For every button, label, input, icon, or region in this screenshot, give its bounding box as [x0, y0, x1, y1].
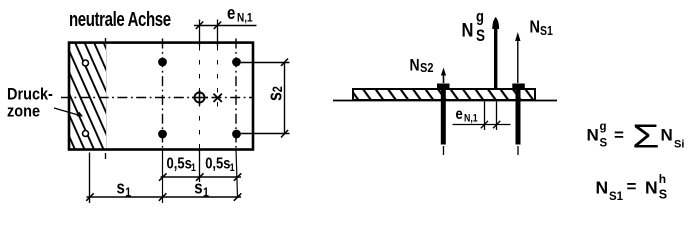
- horizontal centerline (dash-dot): [61, 97, 253, 99]
- svg-text:N: N: [462, 19, 474, 41]
- label s1 (left): [117, 177, 132, 200]
- dimension s1 s1 (bottom): [86, 193, 241, 201]
- svg-text:s: s: [194, 177, 202, 198]
- svg-text:Si: Si: [674, 139, 684, 151]
- svg-text:N: N: [596, 178, 609, 198]
- neutral axis boundary line (right edge of hatched zone): [105, 38, 107, 159]
- formula N_S1 = N_S^h: [596, 172, 668, 203]
- svg-text:neutrale Achse: neutrale Achse: [69, 8, 171, 31]
- left anchor bolt (section): [437, 84, 450, 156]
- plate section hatched: [353, 89, 535, 100]
- svg-text:s: s: [264, 92, 286, 101]
- svg-text:zone: zone: [7, 103, 40, 121]
- bolt dot bottom-right: [232, 130, 241, 139]
- baseplate outline: [69, 43, 253, 150]
- svg-text:Druck-: Druck-: [7, 86, 53, 104]
- svg-text:S1: S1: [540, 25, 553, 38]
- force arrow N_S1 (thin): [515, 32, 520, 83]
- right anchor bolt (section): [512, 84, 525, 156]
- svg-text:s: s: [117, 177, 125, 198]
- dimension s2 (right side): [241, 59, 290, 138]
- svg-text:N,1: N,1: [237, 12, 253, 25]
- compression zone hatch (Druckzone): [70, 43, 107, 149]
- svg-text:S: S: [600, 138, 608, 150]
- svg-text:N: N: [645, 178, 658, 198]
- svg-text:=: =: [627, 177, 637, 196]
- open circle anchor (compression side, top): [83, 60, 89, 66]
- label e_N,1 (top): [227, 2, 253, 24]
- formula N_S^g = sum N_Si: [587, 119, 685, 155]
- label 0,5s1 (right): [205, 155, 235, 174]
- svg-text:1: 1: [191, 162, 196, 174]
- label N_S2: [410, 56, 434, 75]
- svg-text:2: 2: [270, 86, 285, 92]
- svg-text:N: N: [661, 126, 673, 145]
- label N_S^g: [462, 8, 486, 45]
- force arrow N_S2 (small): [441, 68, 446, 84]
- svg-text:1: 1: [230, 162, 235, 174]
- dimension e_N,1 (top): [194, 22, 257, 30]
- svg-text:N: N: [530, 18, 540, 36]
- svg-text:S1: S1: [609, 191, 624, 203]
- svg-text:g: g: [476, 8, 484, 25]
- label s1 (right): [194, 177, 209, 200]
- svg-text:N: N: [587, 126, 599, 145]
- bolt dot bottom-left: [158, 130, 167, 139]
- svg-text:1: 1: [125, 184, 131, 199]
- label s2 (rotated): [264, 86, 286, 101]
- centroid symbol (circle with cross): [192, 90, 208, 106]
- dimension e_N,1 (section): [453, 121, 511, 129]
- svg-text:S: S: [659, 188, 667, 202]
- label 0,5s1 (left): [167, 155, 197, 174]
- bolt dot top-right: [232, 58, 241, 67]
- load point x mark: [214, 94, 222, 102]
- svg-text:=: =: [614, 126, 624, 145]
- svg-text:S: S: [476, 28, 485, 45]
- svg-text:N: N: [410, 56, 420, 74]
- force arrow N_S^g (thick resultant): [492, 17, 499, 89]
- vertical bolt-column centerline left: [162, 39, 164, 204]
- svg-text:e: e: [456, 106, 463, 123]
- open circle anchor (compression side, bottom): [83, 131, 89, 137]
- svg-text:g: g: [600, 121, 607, 133]
- svg-text:N,1: N,1: [464, 113, 478, 125]
- extension line bolt-group axis (section): [484, 102, 486, 131]
- ground/interface line: [333, 100, 557, 102]
- svg-text:0,5s: 0,5s: [205, 155, 230, 172]
- svg-text:1: 1: [203, 184, 209, 199]
- label "neutrale Achse": [69, 8, 171, 31]
- label e_N,1 (section): [456, 106, 479, 125]
- label N_S1: [530, 18, 554, 38]
- dimension 0,5s1 0,5s1 (below plate): [159, 173, 241, 181]
- svg-text:h: h: [659, 172, 666, 186]
- label "Druck- zone": [7, 86, 53, 121]
- centroid axis vertical line (through circle-cross): [199, 20, 201, 183]
- svg-text:e: e: [227, 2, 235, 23]
- vertical bolt-column centerline right: [236, 39, 238, 198]
- leader arrow from Druckzone label: [54, 108, 83, 117]
- extension line load axis (section): [496, 102, 498, 131]
- load axis vertical line (through x mark): [217, 20, 219, 110]
- svg-text:S2: S2: [420, 60, 434, 75]
- svg-text:0,5s: 0,5s: [167, 155, 192, 172]
- extension line left (s1 datum): [89, 153, 91, 204]
- bolt dot top-left: [158, 58, 167, 67]
- svg-text:Σ: Σ: [632, 119, 660, 155]
